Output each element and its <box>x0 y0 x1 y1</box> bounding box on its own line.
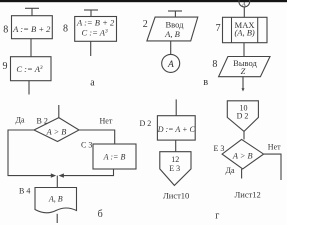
wire: block 8 to block 9 <box>30 39 32 57</box>
connector circle A (top of chart g, clipped by page edge) <box>239 0 250 8</box>
svg-text:в: в <box>203 77 208 88</box>
wire: entry into block D2 (chart g, sheet sender) <box>175 99 177 115</box>
svg-text:A := B + 2: A := B + 2 <box>12 24 51 34</box>
svg-text:2: 2 <box>143 19 148 30</box>
svg-text:A, B: A, B <box>48 195 63 204</box>
wire with arrowhead: exit from output block 8 <box>242 77 245 92</box>
svg-text:Е 3: Е 3 <box>169 164 180 173</box>
wire: exit from document B4 <box>56 214 58 223</box>
svg-text:Лист12: Лист12 <box>235 189 261 199</box>
svg-text:Нет: Нет <box>268 143 281 152</box>
wire: connector A to predefined block 7 <box>243 7 245 17</box>
top border bar <box>0 0 287 2</box>
svg-text:A: A <box>167 60 174 70</box>
svg-text:8: 8 <box>3 24 8 35</box>
output block 8: Vyvod Z (parallelogram) <box>219 57 270 77</box>
decision B2: A > B (diamond) <box>34 118 79 142</box>
svg-text:С 3: С 3 <box>81 141 92 150</box>
wire: entry tick into combined block 8 (chart a, right) <box>84 10 98 17</box>
svg-text:8: 8 <box>212 59 217 70</box>
wire: entry tick into block 8 (chart a, left) <box>25 8 39 15</box>
off-page connector: 10 / D 2 (pentagon, sheet receiver) <box>227 101 258 132</box>
arrowhead left-pointing at junction <box>59 173 64 177</box>
svg-text:A > B: A > B <box>46 127 67 136</box>
svg-text:Z: Z <box>241 66 246 76</box>
wire: yes branch loop (left, down, right) <box>8 130 52 176</box>
svg-text:A, B: A, B <box>164 29 180 39</box>
svg-text:(A, B): (A, B) <box>234 28 254 38</box>
svg-text:A := B + 2: A := B + 2 <box>76 18 115 28</box>
wire: connector to decision E3 <box>243 131 245 139</box>
connector circle A <box>162 54 180 72</box>
wire: yes branch down <box>241 169 243 179</box>
wire: exit from combined block 8 <box>90 41 92 56</box>
wire: block D2 to off-page connector <box>175 140 177 152</box>
svg-text:A > B: A > B <box>232 151 253 160</box>
svg-text:Нет: Нет <box>100 117 113 126</box>
process block 9: C := A^3 <box>11 57 52 81</box>
svg-text:а: а <box>90 78 95 89</box>
document block B4: A, B <box>35 188 77 213</box>
svg-text:D 2: D 2 <box>140 119 152 128</box>
process block 8 combined: A := B + 2 ; C := A^3 <box>75 17 117 42</box>
process block C3: A := B <box>93 144 136 169</box>
svg-text:б: б <box>98 209 103 220</box>
svg-text:Е 3: Е 3 <box>214 144 225 153</box>
predefined process block 7: MAX (A, B) <box>223 17 268 42</box>
svg-text:г: г <box>215 210 219 221</box>
wire: no branch (right, down into block C3) <box>79 130 115 144</box>
svg-text:8: 8 <box>63 24 68 35</box>
svg-text:C := A3: C := A3 <box>81 28 108 38</box>
process block D2: D := A + C <box>157 116 196 140</box>
off-page connector: 12 / E 3 (pentagon) <box>160 152 191 186</box>
svg-text:A: A <box>241 2 246 8</box>
svg-text:В 4: В 4 <box>19 187 30 196</box>
svg-text:Да: Да <box>226 166 235 175</box>
arrowhead right-pointing at junction <box>51 173 56 177</box>
svg-text:D := A + C: D := A + C <box>157 125 196 134</box>
wire: no branch (right then down) <box>264 154 281 180</box>
wire: exit from block 9 <box>28 81 30 95</box>
decision E3: A > B (diamond) <box>222 139 264 169</box>
svg-text:9: 9 <box>3 61 8 72</box>
wire: input block to connector A <box>170 41 172 54</box>
svg-text:7: 7 <box>216 23 221 34</box>
svg-text:12: 12 <box>171 155 179 164</box>
svg-text:Да: Да <box>16 116 25 125</box>
input block 2: Vvod A, B (parallelogram) <box>147 17 198 41</box>
wire: junction down to document B4 <box>56 176 58 188</box>
svg-text:D 2: D 2 <box>237 112 249 121</box>
svg-text:A := B: A := B <box>103 153 126 162</box>
wire: entry tick into input block 2 (chart v) <box>168 11 182 17</box>
process block 8: A := B + 2 <box>12 16 53 39</box>
wire: entry into decision B2 (chart b) <box>58 105 60 118</box>
wire: block C3 down and left to junction <box>63 169 114 176</box>
svg-text:Лист10: Лист10 <box>163 190 189 200</box>
svg-text:C := A3: C := A3 <box>16 64 43 74</box>
wire: block 7 to output block 8 <box>243 43 245 57</box>
